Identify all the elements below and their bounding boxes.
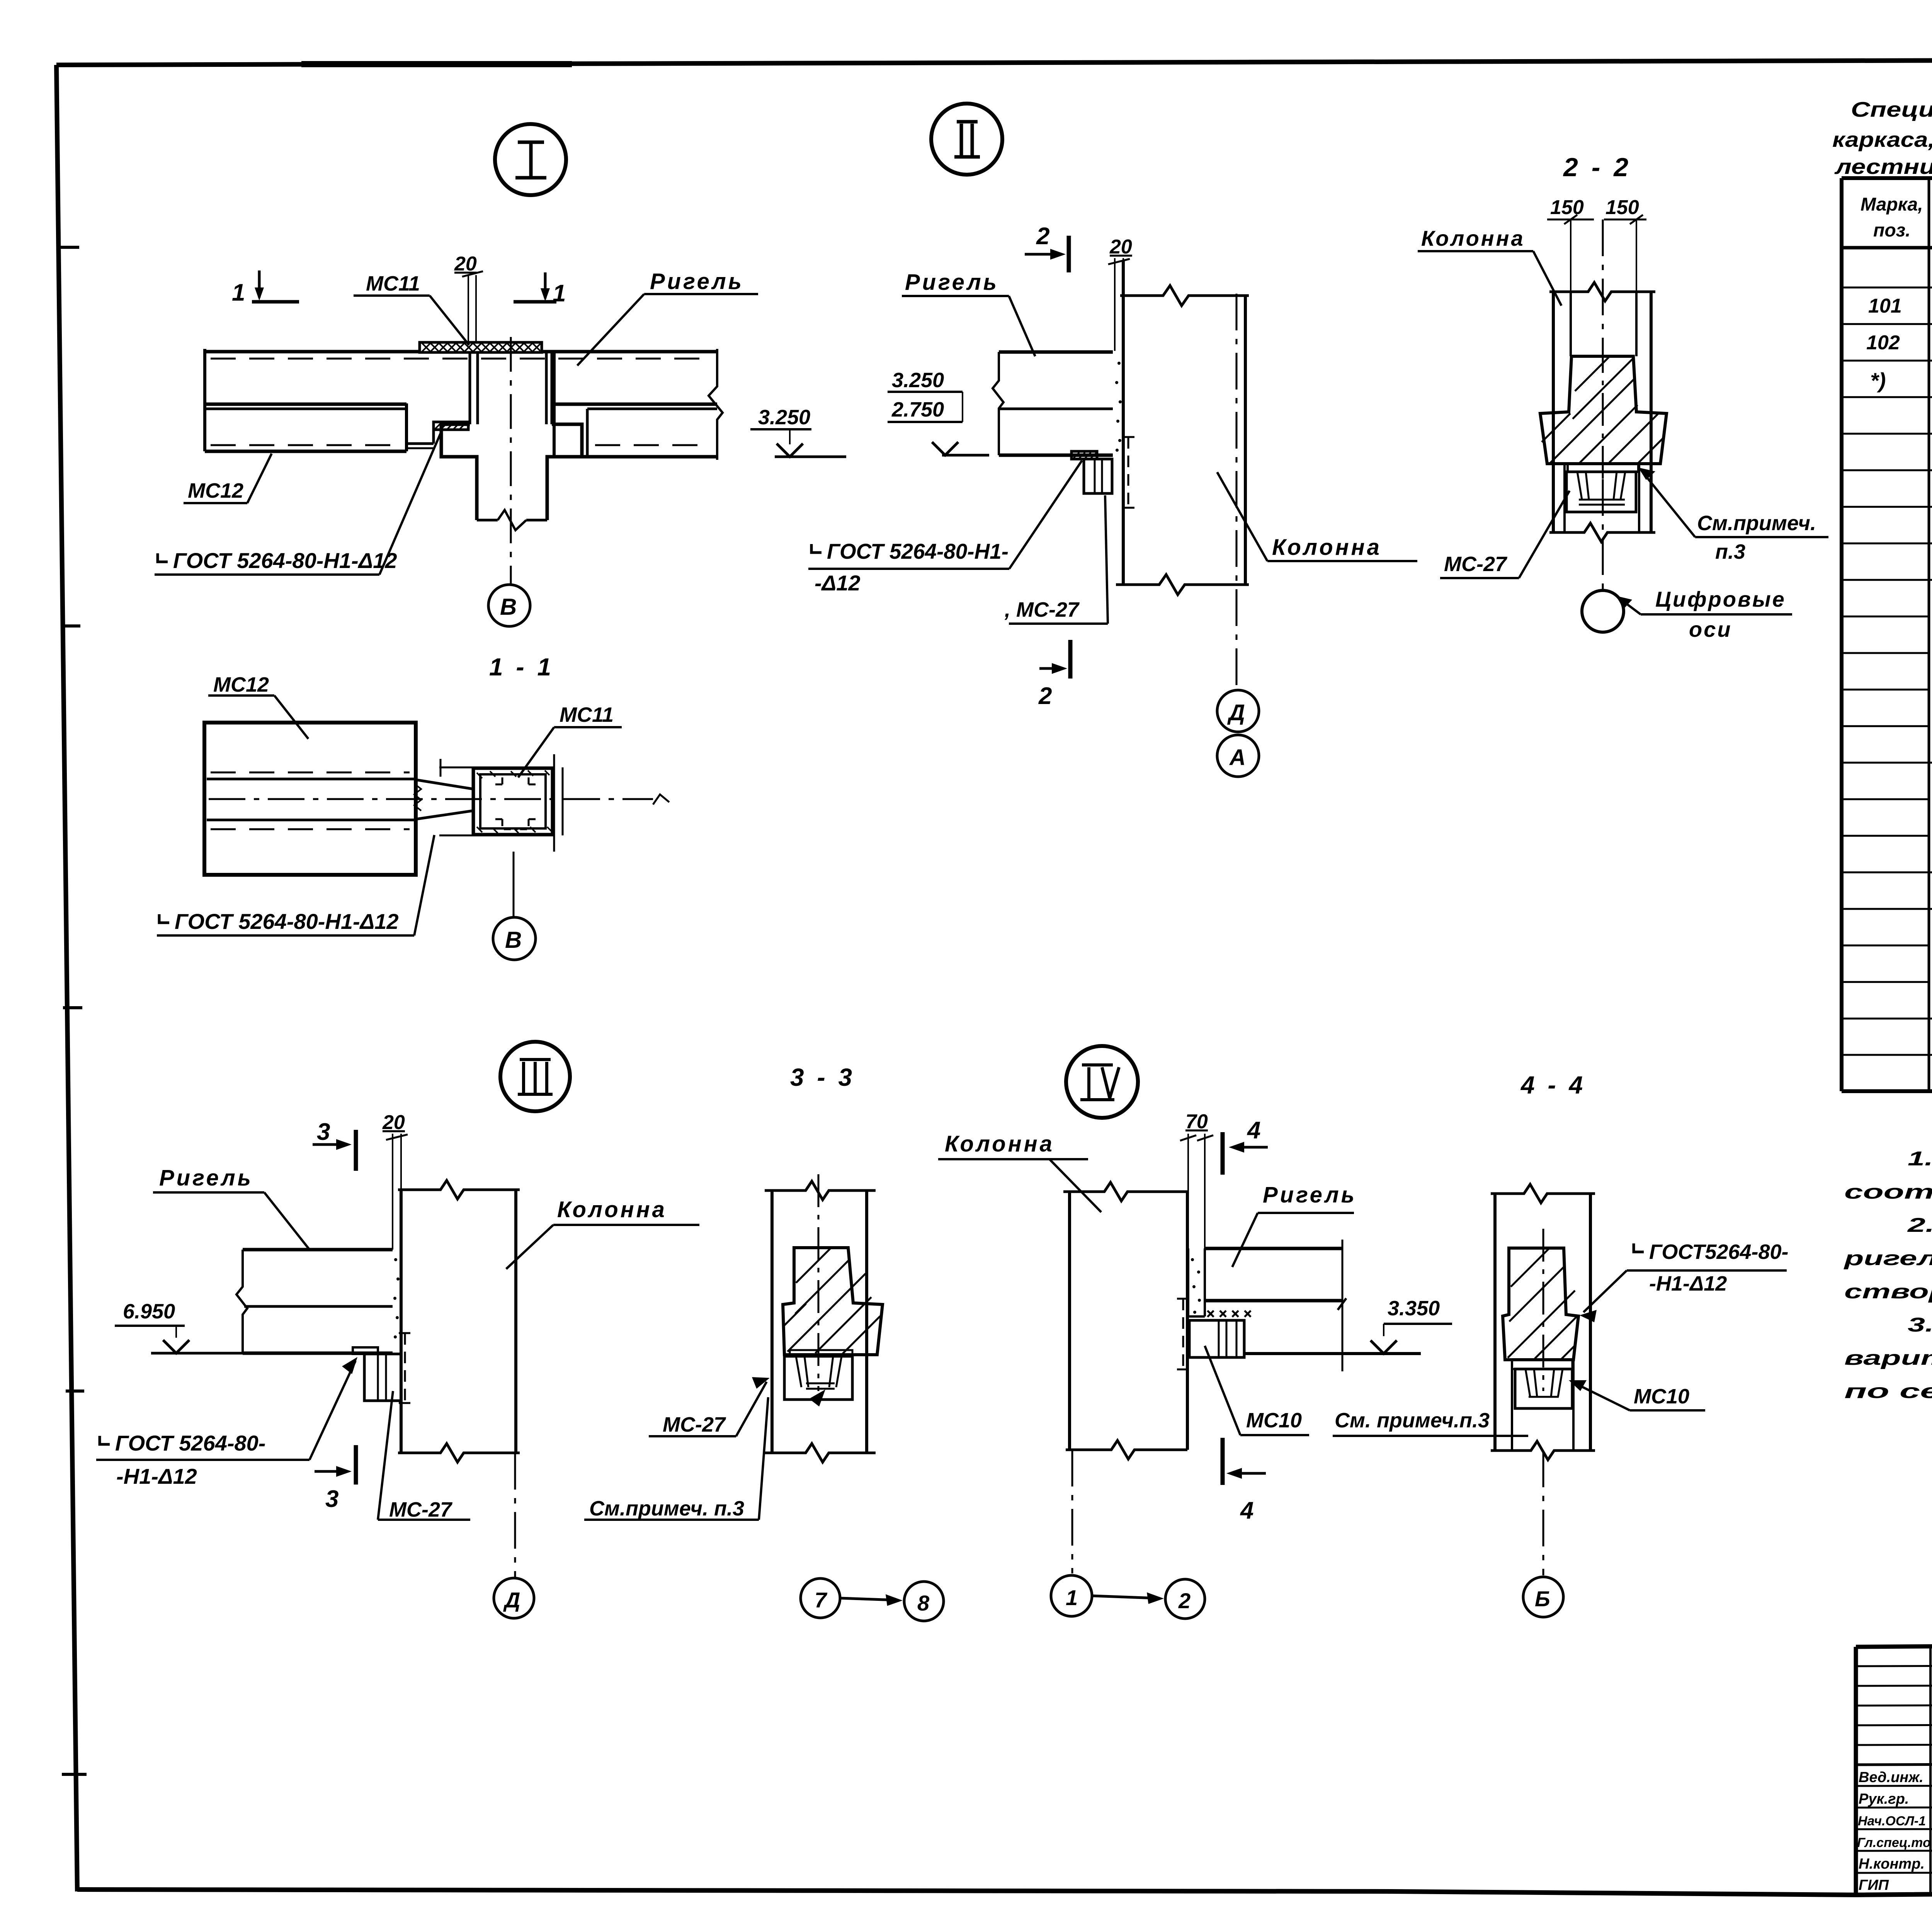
level 3.350: [1371, 1297, 1452, 1354]
svg-text:3 - 3: 3 - 3: [790, 1063, 855, 1091]
svg-text:2.750: 2.750: [891, 398, 944, 421]
label Rigel II: [902, 270, 1035, 356]
svg-text:ГОСТ 5264-80-: ГОСТ 5264-80-: [115, 1431, 265, 1455]
svg-text:2: 2: [1036, 223, 1049, 250]
weld plate MC11 hatched: [420, 342, 542, 352]
svg-text:МС11: МС11: [560, 703, 614, 726]
svg-text:70: 70: [1185, 1111, 1208, 1133]
svg-text:А: А: [1229, 745, 1246, 770]
label MC-27 II: [1004, 495, 1108, 624]
column II: [1116, 261, 1249, 595]
label Kolonna II: [1217, 472, 1417, 561]
label Sm primech p3 3-3: [584, 1389, 825, 1520]
svg-text:Ригель: Ригель: [650, 269, 744, 294]
section mark 3 bottom: [315, 1445, 356, 1512]
svg-text:по серии 1. 020 - 1/83 вып: по серии 1. 020 - 1/83 вып. 6 -1.: [1844, 1380, 1932, 1403]
svg-text:1: 1: [232, 279, 245, 306]
svg-text:150: 150: [1605, 196, 1639, 219]
level 6.950: [115, 1300, 247, 1353]
column 4-4: [1491, 1184, 1595, 1460]
axis bubbles 7 8: [801, 1578, 944, 1621]
svg-text:лестниц (продолжение): лестниц (продолжение): [1834, 155, 1932, 179]
svg-text:6.950: 6.950: [123, 1300, 175, 1323]
section mark 1 right: [514, 272, 566, 307]
section mark 4 bottom: [1223, 1438, 1266, 1524]
svg-text:Колонна: Колонна: [945, 1131, 1054, 1156]
left slab bottom edges: [205, 403, 406, 406]
svg-text:3: 3: [325, 1486, 338, 1512]
dim 20 gap: [454, 253, 483, 342]
seat bracket III: [353, 1347, 401, 1401]
signature rows: [1857, 1767, 1932, 1893]
dim 20 detail III: [382, 1111, 408, 1250]
svg-text:См.примеч. п.3: См.примеч. п.3: [589, 1497, 744, 1520]
label MC11: [354, 272, 469, 345]
column slot walls: [470, 352, 552, 424]
svg-text:соответствии с указаниями Г: соответствии с указаниями ГОСТ 5264-80: [1844, 1181, 1932, 1203]
svg-text:8: 8: [917, 1591, 930, 1615]
axis IV: [1071, 1450, 1073, 1573]
dim 20 detail II: [1108, 236, 1132, 351]
svg-text:п.3: п.3: [1715, 540, 1745, 563]
svg-text:створом марки 200.: створом марки 200.: [1844, 1281, 1932, 1303]
section mark 4 top: [1223, 1117, 1268, 1175]
label Rigel IV: [1232, 1182, 1357, 1267]
right beam edges: [554, 349, 723, 460]
svg-text:Колонна: Колонна: [557, 1197, 667, 1222]
hidden anchor dashed II: [1123, 437, 1134, 508]
label GOST weld detail I: [155, 431, 442, 575]
svg-text:Ригель: Ригель: [1263, 1182, 1357, 1207]
svg-text:поз.: поз.: [1873, 220, 1910, 241]
svg-text:ГИП: ГИП: [1859, 1877, 1889, 1893]
label Rigel: [577, 269, 758, 366]
axis line to bubble: [513, 852, 515, 917]
svg-text:МС-27: МС-27: [663, 1413, 726, 1436]
svg-text:МС-27: МС-27: [1444, 553, 1508, 576]
beam IV: [1205, 1240, 1421, 1371]
slab inner lines: [207, 772, 669, 829]
grout dots III: [393, 1258, 400, 1338]
svg-text:МС12: МС12: [188, 479, 243, 502]
svg-text:Ригель: Ригель: [159, 1165, 253, 1190]
axis bubble B section 1-1: [493, 917, 536, 960]
darker segment of top border: [301, 61, 572, 67]
label MC10 4-4: [1569, 1380, 1705, 1410]
svg-text:Б: Б: [1535, 1587, 1550, 1611]
hidden anchor dashed III: [399, 1333, 411, 1403]
svg-text:каркаса, ферм, плит покрытия и: каркаса, ферм, плит покрытия и перекрыти…: [1832, 128, 1932, 151]
dashed reinforcement line top: [211, 358, 713, 360]
seat step under left beam: [408, 422, 468, 448]
seat bracket IV: [1189, 1320, 1244, 1357]
svg-text:-Δ12: -Δ12: [815, 571, 861, 595]
MC-27 bracket II: [1071, 451, 1112, 493]
label GOST II: [808, 461, 1082, 595]
svg-text:*): *): [1870, 368, 1886, 393]
svg-text:3.350: 3.350: [1388, 1297, 1440, 1320]
node IV bubble: [1066, 1046, 1138, 1118]
axis line II: [1236, 294, 1238, 690]
extension lines around box: [439, 754, 563, 852]
label MC-27 3-3: [649, 1377, 770, 1436]
svg-text:7: 7: [815, 1588, 828, 1612]
column inner edges below corbel 2-2: [1565, 464, 1639, 532]
beam top edge: [205, 350, 420, 354]
axis 2-2: [1602, 219, 1604, 340]
MC11 box section: [473, 768, 553, 835]
levels 3.250 2.750: [888, 369, 989, 455]
label GOST 4-4: [1580, 1240, 1789, 1322]
table column 1 marks: [1866, 295, 1902, 393]
label Sm primech 2-2: [1638, 468, 1828, 563]
axis bubble B 4-4: [1523, 1577, 1563, 1617]
label Kolonna IV: [938, 1131, 1101, 1212]
label MC12 section 1-1: [208, 673, 308, 739]
svg-text:20: 20: [454, 253, 477, 275]
corbel hatched 3-3: [783, 1174, 883, 1391]
svg-text:МС-27: МС-27: [389, 1498, 453, 1521]
svg-text:-Н1-Δ12: -Н1-Δ12: [116, 1464, 197, 1488]
svg-text:1. Сварочные работы следует: 1. Сварочные работы следует выполнять в: [1908, 1148, 1932, 1170]
level mark 3.250: [750, 406, 846, 457]
cross column outline: [441, 424, 582, 530]
axis bubbles 1 2: [1051, 1575, 1205, 1619]
column centerline: [510, 337, 512, 584]
svg-text:ГОСТ 5264-80-Н1-Δ12: ГОСТ 5264-80-Н1-Δ12: [173, 548, 397, 573]
hidden anchor dashed IV: [1177, 1299, 1189, 1369]
svg-text:4: 4: [1247, 1117, 1260, 1144]
axis bubble B: [488, 585, 530, 626]
column IV: [1063, 1182, 1187, 1459]
svg-text:4: 4: [1240, 1497, 1253, 1524]
svg-text:3. Соединительные изделия М: 3. Соединительные изделия МС-27 и МС10 п…: [1908, 1314, 1932, 1336]
svg-text:Д: Д: [503, 1588, 520, 1612]
label MC11 section 1-1: [518, 703, 622, 777]
axis 4-4: [1543, 1451, 1544, 1575]
svg-text:МС10: МС10: [1246, 1409, 1302, 1432]
specification table header text: [1861, 194, 1932, 241]
svg-text:ГОСТ 5264-80-Н1-Δ12: ГОСТ 5264-80-Н1-Δ12: [175, 909, 399, 934]
svg-text:102: 102: [1866, 332, 1900, 354]
svg-text:Спецификация к схемам распо: Спецификация к схемам расположения элеме…: [1851, 97, 1932, 121]
label MC10 IV: [1205, 1346, 1309, 1435]
svg-text:1 - 1: 1 - 1: [489, 653, 554, 681]
node III bubble: [500, 1042, 570, 1111]
svg-text:ГОСТ 5264-80-Н1-: ГОСТ 5264-80-Н1-: [827, 539, 1009, 563]
svg-text:2: 2: [1038, 683, 1052, 709]
label Kolonna 2-2: [1418, 226, 1561, 306]
grout strip IV: [1188, 1248, 1205, 1316]
svg-text:Гл.спец.то: Гл.спец.то: [1857, 1835, 1931, 1850]
svg-text:Ригель: Ригель: [905, 270, 999, 295]
beam II: [993, 352, 1113, 455]
section mark 1 left: [232, 270, 299, 306]
svg-text:Колонна: Колонна: [1272, 535, 1382, 560]
svg-text:Вед.инж.: Вед.инж.: [1859, 1769, 1923, 1786]
node II bubble: [931, 104, 1002, 175]
seat bracket 4-4: [1512, 1360, 1572, 1408]
dim 150 150: [1547, 196, 1646, 356]
svg-text:варить к колоннам в соотв: варить к колоннам в соответствии с узлом…: [1844, 1347, 1932, 1369]
axis III: [514, 1453, 516, 1577]
section mark 2 top: [1025, 223, 1069, 272]
svg-text:См.примеч.: См.примеч.: [1697, 512, 1816, 535]
notes text: [1843, 1148, 1932, 1403]
grout strip dots II: [1115, 362, 1122, 452]
axis circle 2-2: [1582, 590, 1624, 632]
svg-text:4 - 4: 4 - 4: [1520, 1071, 1586, 1099]
svg-text:Рук.гр.: Рук.гр.: [1859, 1791, 1909, 1807]
fold tick marks on left border: [59, 247, 87, 1774]
beam neck taper: [414, 780, 473, 819]
main title block frame: [1856, 1641, 1932, 1895]
svg-text:, МС-27: , МС-27: [1004, 598, 1080, 621]
svg-text:20: 20: [382, 1111, 405, 1134]
seat bracket 2-2: [1566, 464, 1638, 512]
label Sm primech IV: [1333, 1409, 1528, 1436]
svg-text:МС12: МС12: [213, 673, 269, 696]
svg-text:См. примеч.п.3: См. примеч.п.3: [1335, 1409, 1490, 1432]
svg-text:2 - 2: 2 - 2: [1563, 153, 1631, 182]
svg-text:В: В: [505, 927, 522, 953]
column 2-2: [1549, 282, 1655, 542]
label GOST section 1-1: [157, 835, 434, 935]
label Kolonna III: [506, 1197, 699, 1269]
column III: [398, 1180, 520, 1462]
svg-text:ГОСТ5264-80-: ГОСТ5264-80-: [1649, 1240, 1789, 1264]
svg-text:101: 101: [1868, 295, 1902, 317]
svg-text:2. Замоноличивание зазора м: 2. Замоноличивание зазора между торцом: [1907, 1214, 1932, 1236]
label MC12 detail I: [184, 454, 272, 503]
svg-text:3.250: 3.250: [758, 406, 810, 429]
svg-text:3: 3: [317, 1119, 330, 1145]
section mark 3 top: [313, 1119, 356, 1171]
label Rigel III: [153, 1165, 310, 1250]
svg-text:МС11: МС11: [366, 272, 420, 295]
svg-text:2: 2: [1178, 1588, 1190, 1613]
axis bubbles D A: [1217, 690, 1259, 777]
svg-text:Колонна: Колонна: [1421, 226, 1525, 250]
svg-text:оси: оси: [1689, 617, 1732, 641]
column 3-3: [765, 1181, 876, 1462]
label MC-27 2-2: [1440, 491, 1570, 578]
column inner edges 4-4: [1512, 1360, 1573, 1451]
corbel hatched 2-2: [1540, 340, 1667, 479]
weld marks IV: [1207, 1311, 1251, 1317]
svg-text:20: 20: [1109, 236, 1132, 258]
axis bubble D III: [494, 1578, 534, 1618]
svg-text:Цифровые: Цифровые: [1655, 587, 1786, 611]
seat bracket 3-3: [784, 1350, 852, 1400]
svg-text:150: 150: [1550, 196, 1584, 219]
beam III: [236, 1250, 393, 1353]
slab plan rect: [204, 723, 416, 875]
section mark 2 bottom: [1038, 640, 1070, 709]
svg-text:Д: Д: [1227, 700, 1245, 725]
specification title: [1832, 97, 1932, 179]
dim 70: [1180, 1111, 1213, 1248]
svg-text:Н.контр.: Н.контр.: [1859, 1856, 1925, 1872]
svg-text:1: 1: [1066, 1585, 1078, 1610]
label Cifrovye osi: [1616, 587, 1792, 641]
svg-text:Нач.ОСЛ-1: Нач.ОСЛ-1: [1858, 1814, 1926, 1828]
svg-text:МС10: МС10: [1634, 1385, 1689, 1408]
svg-text:-Н1-Δ12: -Н1-Δ12: [1649, 1272, 1727, 1295]
specification table grid: [1842, 178, 1932, 1091]
label GOST III: [96, 1357, 357, 1488]
svg-text:В: В: [500, 594, 517, 620]
svg-text:ригеля и колонной выполнять: ригеля и колонной выполнять цементным ра…: [1843, 1247, 1932, 1270]
svg-text:3.250: 3.250: [892, 369, 944, 392]
corbel hatched 4-4: [1503, 1229, 1578, 1391]
svg-text:Марка,: Марка,: [1861, 194, 1923, 215]
label MC-27 III: [378, 1391, 470, 1521]
node I bubble: [495, 124, 566, 195]
